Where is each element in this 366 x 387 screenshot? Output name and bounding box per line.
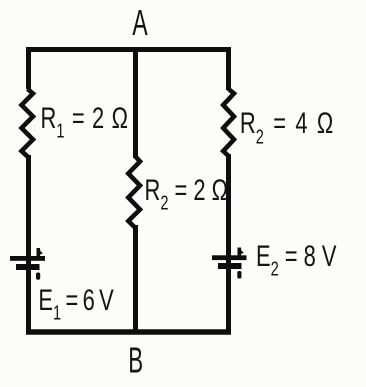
svg-text:A: A bbox=[132, 4, 148, 43]
svg-text:B: B bbox=[128, 341, 143, 381]
